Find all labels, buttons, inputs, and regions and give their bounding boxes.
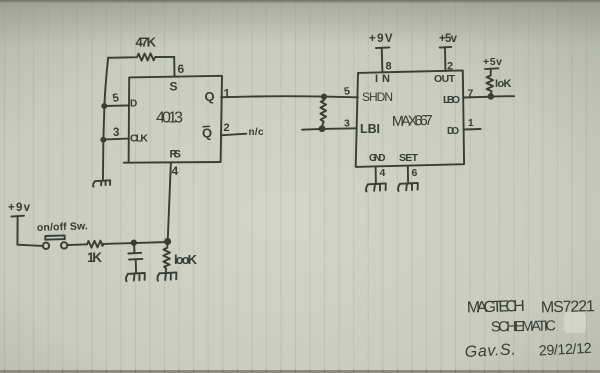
svg-text:+9v: +9v bbox=[8, 202, 31, 214]
svg-text:29/12/12: 29/12/12 bbox=[538, 341, 592, 360]
svg-text:4013: 4013 bbox=[156, 110, 183, 127]
white correction patch bbox=[564, 312, 586, 333]
svg-text:MS7221: MS7221 bbox=[541, 298, 596, 316]
svg-text:n/c: n/c bbox=[249, 127, 264, 138]
wire switch to 1K bbox=[68, 243, 88, 246]
switch SW1 on/off bbox=[43, 243, 49, 249]
op-amp U1 4013 box bbox=[124, 76, 222, 163]
svg-text:SET: SET bbox=[399, 152, 419, 164]
node LBO junction bbox=[489, 94, 494, 99]
svg-text:LBI: LBI bbox=[360, 122, 380, 136]
svg-text:on/off Sw.: on/off Sw. bbox=[37, 220, 88, 234]
svg-text:SHDN: SHDN bbox=[362, 90, 393, 104]
resistor R2 1K bbox=[87, 241, 104, 248]
node RS junction bbox=[165, 239, 170, 244]
wire RS pin4 bbox=[168, 162, 171, 241]
wire CLK pin3 bbox=[103, 139, 128, 140]
svg-text:8: 8 bbox=[386, 61, 392, 73]
resistor R1 47K bbox=[108, 53, 174, 60]
svg-text:OUT: OUT bbox=[434, 73, 456, 85]
wire +9V tee bbox=[11, 216, 42, 246]
wire D pin5 bbox=[104, 104, 128, 107]
ground 100K bbox=[157, 272, 176, 280]
wire DO pin1 bbox=[464, 128, 481, 131]
node SHDN junction bbox=[322, 95, 326, 99]
svg-text:+9V: +9V bbox=[369, 33, 393, 45]
svg-text:2: 2 bbox=[447, 61, 453, 73]
svg-text:6: 6 bbox=[178, 62, 185, 76]
svg-text:+5v: +5v bbox=[483, 56, 502, 68]
svg-text:+5v: +5v bbox=[439, 33, 458, 45]
svg-text:LBO: LBO bbox=[443, 94, 460, 106]
wire +9V IN pin8 bbox=[376, 47, 390, 71]
ground capacitor bbox=[126, 273, 145, 281]
wire left rail bbox=[103, 58, 108, 181]
svg-text:Q: Q bbox=[205, 89, 215, 104]
wire +5V OUT pin2 bbox=[440, 47, 452, 71]
svg-text:4: 4 bbox=[380, 167, 386, 179]
capacitor C1 bbox=[128, 243, 142, 274]
svg-text:IoK: IoK bbox=[495, 78, 512, 90]
svg-text:looK: looK bbox=[174, 252, 198, 267]
node CLK junction bbox=[101, 138, 105, 142]
svg-text:DO: DO bbox=[447, 126, 459, 137]
svg-text:GND: GND bbox=[369, 153, 386, 164]
svg-text:1: 1 bbox=[468, 118, 474, 129]
svg-text:1K: 1K bbox=[87, 250, 102, 265]
svg-text:47K: 47K bbox=[136, 35, 157, 50]
wire GND pin4 bbox=[375, 166, 377, 184]
svg-text:SCHEMATIC: SCHEMATIC bbox=[491, 318, 556, 335]
wire LBI pin3 bbox=[302, 128, 357, 129]
svg-text:RS: RS bbox=[170, 149, 182, 161]
svg-text:6: 6 bbox=[412, 167, 418, 179]
svg-text:4: 4 bbox=[172, 164, 179, 178]
wire pin6 drop bbox=[173, 57, 175, 77]
top photo edge bbox=[0, 0, 600, 2]
wire SET pin6 bbox=[407, 166, 409, 184]
label Qbar overline bbox=[203, 125, 211, 128]
svg-text:7: 7 bbox=[468, 88, 474, 100]
wire 1K to RS junction bbox=[104, 242, 168, 244]
regulator U2 MAX667 box bbox=[356, 70, 464, 166]
resistor R5 10K bbox=[485, 68, 498, 94]
svg-text:S: S bbox=[170, 80, 178, 94]
node cap junction bbox=[132, 241, 136, 245]
ground GND pin bbox=[366, 183, 386, 191]
svg-text:Gav.S.: Gav.S. bbox=[464, 341, 516, 361]
ground left rail bbox=[93, 180, 110, 186]
svg-text:MAX667: MAX667 bbox=[392, 113, 433, 130]
node LBI junction bbox=[320, 126, 325, 131]
svg-text:1: 1 bbox=[224, 87, 231, 101]
svg-text:3: 3 bbox=[113, 127, 119, 139]
svg-text:2: 2 bbox=[224, 122, 230, 134]
wire LBO pin7 bbox=[464, 96, 514, 97]
wire Qbar pin2 bbox=[221, 134, 247, 136]
node D junction bbox=[102, 104, 106, 108]
ground SET pin bbox=[398, 183, 418, 191]
svg-text:CLK: CLK bbox=[130, 133, 148, 145]
resistor R4 between pin5 and pin3 bbox=[320, 98, 326, 126]
svg-text:MAGTECH: MAGTECH bbox=[467, 298, 525, 317]
svg-text:Q: Q bbox=[202, 126, 212, 141]
resistor R3 100K bbox=[163, 243, 170, 273]
bottom photo edge bbox=[0, 370, 600, 373]
svg-text:IN: IN bbox=[375, 73, 390, 85]
svg-text:3: 3 bbox=[344, 118, 350, 130]
wire Q pin1 to SHDN bbox=[221, 96, 358, 97]
svg-text:D: D bbox=[130, 99, 137, 110]
